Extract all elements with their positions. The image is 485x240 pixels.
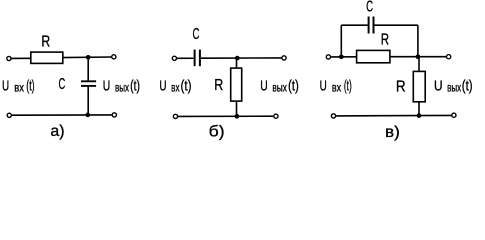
svg-text:U: U: [434, 77, 443, 94]
svg-text:а): а): [50, 123, 64, 140]
svg-text:вых: вых: [272, 80, 287, 94]
svg-text:U: U: [159, 77, 166, 94]
svg-text:б): б): [209, 124, 225, 141]
svg-text:вх: вх: [171, 80, 179, 94]
svg-text:R: R: [381, 31, 389, 48]
svg-text:U: U: [260, 77, 267, 94]
svg-text:C: C: [58, 76, 65, 93]
svg-text:вых: вых: [115, 80, 129, 94]
svg-text:U: U: [320, 77, 327, 94]
svg-text:в): в): [385, 124, 400, 141]
svg-text:C: C: [193, 26, 200, 43]
svg-text:(t): (t): [130, 77, 140, 94]
svg-text:C: C: [366, 0, 373, 15]
svg-text:вх: вх: [332, 80, 341, 94]
svg-text:(t): (t): [288, 77, 299, 94]
svg-text:вх: вх: [14, 80, 24, 94]
svg-text:U: U: [103, 77, 110, 94]
svg-text:R: R: [41, 33, 50, 50]
svg-text:R: R: [396, 79, 406, 96]
svg-text:R: R: [214, 77, 223, 94]
svg-text:U: U: [2, 77, 9, 94]
svg-text:(t): (t): [180, 77, 191, 94]
svg-text:(t): (t): [462, 77, 473, 94]
svg-text:(t): (t): [344, 77, 352, 94]
svg-text:вых: вых: [447, 80, 461, 94]
svg-text:(t): (t): [26, 77, 34, 94]
